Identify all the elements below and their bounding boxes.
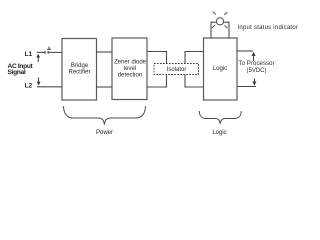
svg-text:Logic: Logic bbox=[212, 130, 226, 136]
wire: rectifier to zener bottom bbox=[97, 86, 113, 88]
arrow up to processor bbox=[252, 52, 256, 61]
wire: zener to isolator bottom bbox=[147, 86, 167, 88]
indicator rays bbox=[212, 12, 227, 29]
wire: rectifier to zener top bbox=[97, 51, 113, 53]
connector break symbol on L1 bbox=[47, 47, 51, 50]
wire: isolator to logic bottom bbox=[185, 86, 204, 88]
svg-text:To Processor: To Processor bbox=[239, 61, 275, 67]
svg-text:Logic: Logic bbox=[213, 66, 227, 72]
svg-text:Bridge: Bridge bbox=[71, 63, 89, 69]
svg-text:Zener diode: Zener diode bbox=[114, 60, 147, 66]
indicator pedestal bbox=[211, 22, 229, 38]
wire L2 bbox=[37, 86, 62, 88]
wire: logic to processor bottom bbox=[237, 86, 256, 88]
svg-text:detection: detection bbox=[118, 73, 142, 79]
block: Logic bbox=[204, 38, 238, 100]
isolator output bar bbox=[184, 51, 186, 88]
wire: logic to processor top bbox=[237, 50, 253, 52]
wire L1 right segment bbox=[48, 51, 62, 53]
brace: Power group bbox=[64, 106, 146, 125]
svg-text:(5VDC): (5VDC) bbox=[246, 68, 266, 74]
L2 signal direction arrow (down) bbox=[37, 78, 41, 86]
block: Bridge Rectifier bbox=[62, 39, 97, 101]
net label: AC Input Signal bbox=[8, 63, 34, 76]
arrow down from processor bbox=[252, 79, 256, 86]
wire: isolator to logic top bbox=[185, 51, 204, 53]
indicator lamp bbox=[216, 18, 223, 25]
block: Zener diode level detection bbox=[112, 38, 147, 100]
svg-text:L2: L2 bbox=[25, 82, 33, 89]
svg-text:Isolator: Isolator bbox=[167, 67, 187, 73]
wire L1 left segment bbox=[37, 51, 45, 53]
svg-text:level: level bbox=[124, 66, 136, 72]
svg-text:Rectifier: Rectifier bbox=[68, 70, 90, 76]
L1 signal direction arrow (up) bbox=[36, 54, 40, 62]
svg-text:Power: Power bbox=[96, 130, 113, 136]
label: To Processor (5VDC) bbox=[239, 61, 275, 74]
svg-text:Input status indicator: Input status indicator bbox=[238, 25, 299, 31]
svg-text:Signal: Signal bbox=[8, 69, 26, 76]
isolator input bar bbox=[166, 51, 168, 88]
brace: Logic group bbox=[199, 111, 241, 124]
block: Isolator (dashed) bbox=[154, 64, 199, 75]
svg-text:L1: L1 bbox=[25, 51, 33, 58]
wire: zener to isolator top bbox=[147, 51, 167, 53]
